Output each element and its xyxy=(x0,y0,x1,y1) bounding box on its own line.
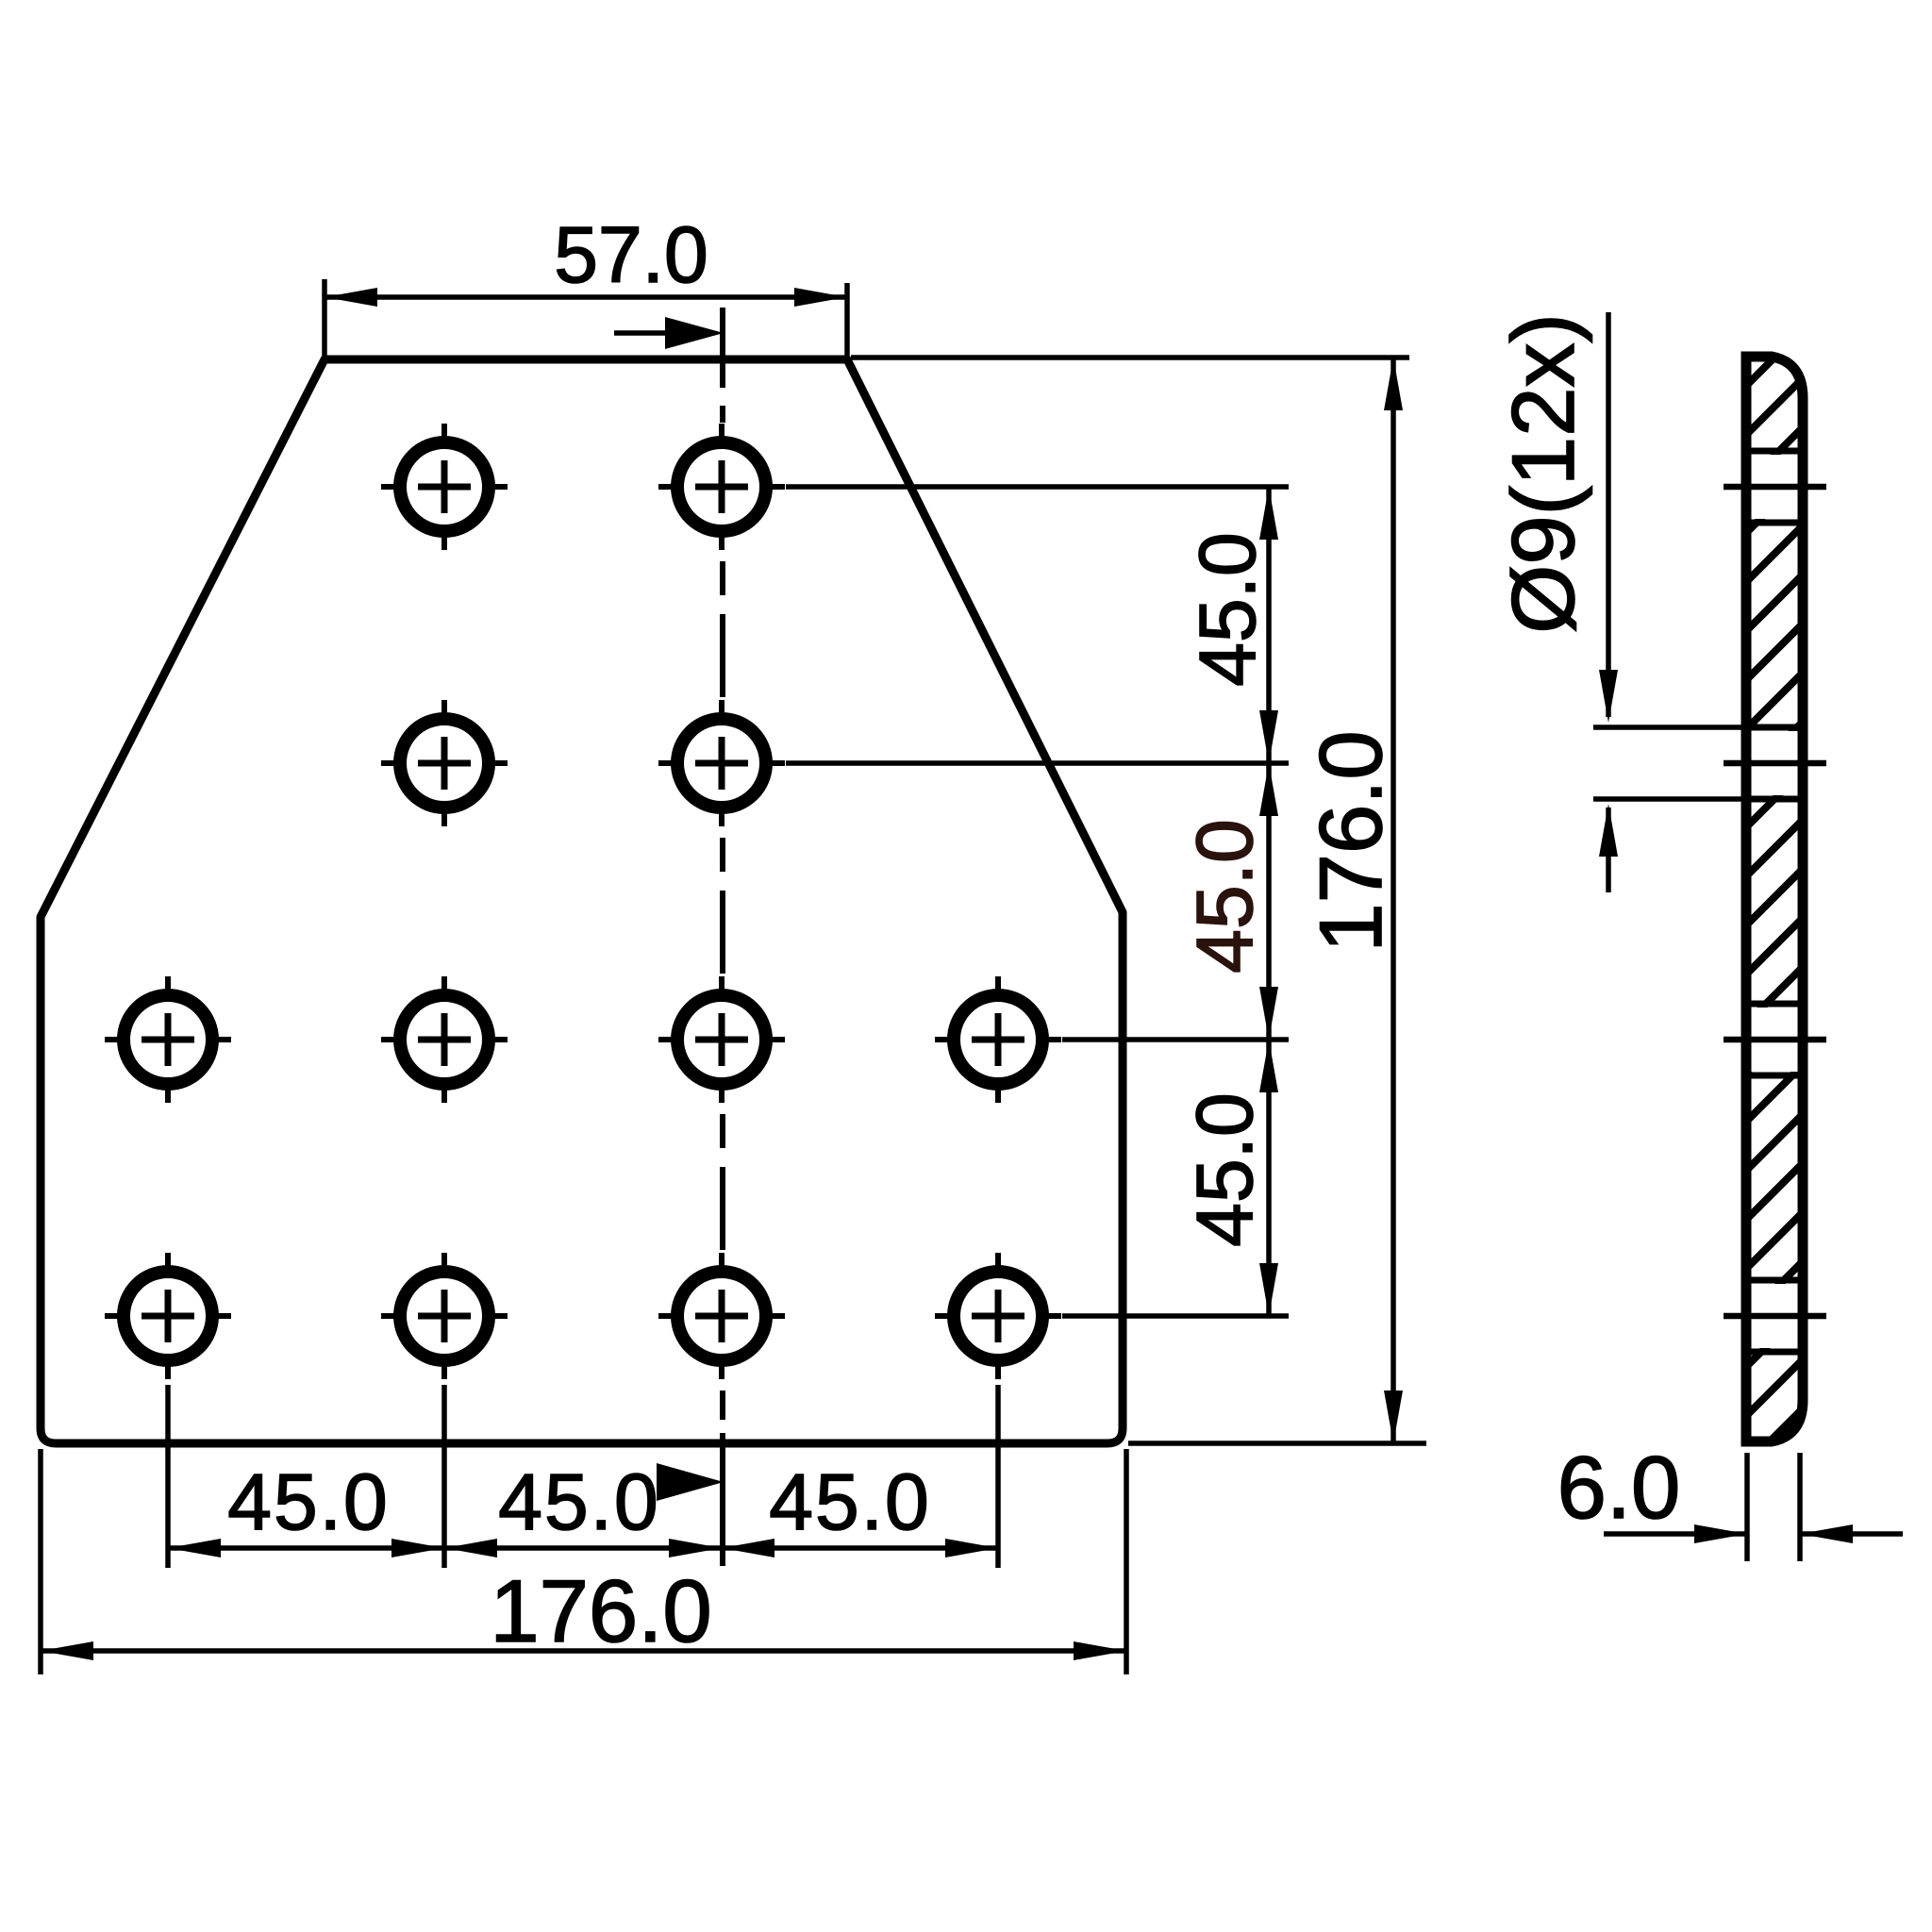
svg-text:45.0: 45.0 xyxy=(227,1457,390,1546)
hole R2C2 xyxy=(381,700,508,826)
svg-text:45.0: 45.0 xyxy=(1180,1092,1269,1247)
bottom extension line col4 xyxy=(995,1385,1001,1568)
side view outline xyxy=(1746,357,1803,1441)
dimension 176.0 (bottom overall width) xyxy=(41,1449,1126,1674)
dimension 176.0 (right overall height) xyxy=(851,358,1426,1443)
hole R3C4 xyxy=(935,976,1061,1103)
dia 9 extension line lower xyxy=(1593,796,1747,802)
plate outline (front view, T-plate with chamfered top corners) xyxy=(41,359,1123,1443)
side view plate body (white fill) xyxy=(1746,357,1803,1441)
svg-text:Ø9(12x): Ø9(12x) xyxy=(1493,313,1592,634)
hole R4C2 xyxy=(381,1253,508,1379)
hole R3C3 xyxy=(658,976,785,1103)
side view hole band row1 xyxy=(1724,451,1826,523)
hole R1C2 xyxy=(381,424,508,550)
row1 extension line right xyxy=(786,484,1289,490)
hole R4C4 xyxy=(935,1253,1061,1379)
svg-text:45.0: 45.0 xyxy=(498,1457,660,1546)
row4 extension line right xyxy=(1062,1313,1289,1319)
hole R4C3 xyxy=(658,1253,785,1379)
side view hole band row4 xyxy=(1724,1280,1826,1352)
hole R1C3 xyxy=(658,424,785,550)
side view section hatching xyxy=(1689,264,1868,1572)
dimension 6.0 (plate thickness) xyxy=(1604,1453,1903,1561)
hole R4C1 xyxy=(105,1253,231,1379)
chained horizontal dimension lines 45.0 (bottom) xyxy=(168,1539,998,1557)
dimension 57.0 (top width) xyxy=(325,210,847,359)
svg-text:176.0: 176.0 xyxy=(1301,730,1400,952)
datum arrow at top centerline xyxy=(614,317,724,349)
side view hole band row2 xyxy=(1724,727,1826,799)
side view hole band row3 xyxy=(1724,1004,1826,1075)
svg-text:6.0: 6.0 xyxy=(1557,1438,1681,1537)
svg-text:45.0: 45.0 xyxy=(769,1457,931,1546)
hole R3C2 xyxy=(381,976,508,1103)
bottom extension line col2 xyxy=(441,1385,447,1568)
chained vertical dimension lines 45.0 (right side) xyxy=(1259,487,1278,1316)
svg-text:45.0: 45.0 xyxy=(1183,532,1272,687)
svg-text:45.0: 45.0 xyxy=(1180,819,1269,974)
dia 9 leader (upper part with down arrow) xyxy=(1599,312,1618,723)
datum arrow at bottom centerline xyxy=(657,1463,724,1501)
hole R2C3 xyxy=(658,700,785,826)
dia 9 extension line upper xyxy=(1593,724,1747,730)
bottom extension line col1 xyxy=(165,1385,171,1568)
dia 9 leader (lower part with up arrow) xyxy=(1599,804,1618,892)
hole R3C1 xyxy=(105,976,231,1103)
row3 extension line right xyxy=(1062,1037,1289,1042)
row2 extension line right xyxy=(786,760,1289,766)
vertical centerline (chain-dashed) xyxy=(720,308,725,1566)
svg-text:176.0: 176.0 xyxy=(490,1561,711,1660)
svg-text:57.0: 57.0 xyxy=(554,210,708,299)
